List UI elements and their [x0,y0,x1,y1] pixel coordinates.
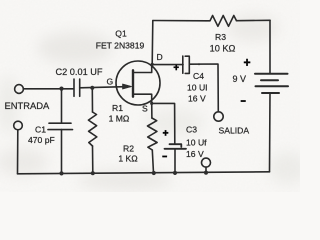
node junction source S [150,102,153,105]
label C4 plus [174,65,179,71]
label C3 plus [163,130,168,136]
svg-text:C4: C4 [193,71,204,81]
wire C1 branch down [61,89,63,123]
battery B1 9V [255,74,288,93]
node junction J2 gate/R1 [90,86,94,90]
svg-text:R1: R1 [112,103,123,113]
wire right rail to battery [269,20,271,73]
svg-text:SALIDA: SALIDA [219,126,250,136]
terminal input lower (ENTRADA) [14,121,23,130]
svg-text:16 V: 16 V [186,149,204,159]
resistor R1 [88,112,96,146]
scan smudges [0,14,308,190]
wire C1 to bottom rail [61,130,63,174]
resistor R2 [148,118,158,150]
wire output lower terminal to rail [205,167,207,172]
wire source junction to R2 [151,103,153,118]
node junction output rail [204,171,208,175]
svg-text:C3: C3 [186,124,197,134]
wire R1 branch down [91,88,93,112]
wire C4 to output corner [189,64,218,112]
svg-text:10 UI: 10 UI [187,83,208,93]
speck [198,63,200,65]
node junction R2 rail [152,171,156,175]
wire gate from C2 to Q1 [80,87,130,88]
wire battery to bottom rail [269,93,272,172]
transistor Q1 channel bar [132,70,134,96]
capacitor C3 [165,144,187,149]
wire input to C2 [23,88,73,90]
svg-text:C2 0.01 UF: C2 0.01 UF [56,67,103,77]
transistor Q1 drain lead [134,64,152,73]
svg-text:ENTRADA: ENTRADA [5,100,51,111]
svg-text:10 Uf: 10 Uf [186,138,207,148]
wire top rail right segment [237,19,271,21]
node junction C1 rail [59,171,63,175]
terminal output lower (SALIDA) [202,158,211,167]
wire input lower terminal down [17,130,19,174]
svg-text:R2: R2 [123,143,134,153]
svg-text:9 V: 9 V [233,74,247,84]
transistor Q1 source lead [134,94,152,103]
transistor Q1 circle [116,61,160,105]
svg-text:G: G [107,77,114,87]
wire R2 to bottom rail [152,150,153,173]
svg-text:1 MΩ: 1 MΩ [109,114,130,124]
svg-text:D: D [157,52,163,62]
svg-text:S: S [142,104,148,114]
wire drain to C4 [152,64,183,66]
svg-text:1 KΩ: 1 KΩ [118,154,138,164]
wire source junction to C3 [152,103,175,143]
node junction drain D [151,63,154,66]
node junction J1 input/C1 [59,87,63,91]
wire top rail left segment [153,20,206,22]
wire drain up to top rail [151,21,154,65]
svg-text:C1: C1 [35,125,46,135]
svg-text:16 V: 16 V [188,94,206,104]
svg-text:FET 2N3819: FET 2N3819 [96,40,145,50]
capacitor C4 [183,56,190,73]
label battery plus [244,59,250,66]
wire R1 to bottom rail [92,146,94,173]
capacitor C1 [48,123,73,129]
label battery minus [241,100,246,102]
wire C3 to bottom rail [174,149,176,173]
capacitor C2 [74,79,80,96]
svg-text:Q1: Q1 [115,29,127,39]
svg-text:470 pF: 470 pF [28,135,55,145]
paper background [0,0,300,192]
terminal output upper (SALIDA) [214,112,223,121]
resistor R3 [206,16,237,27]
node junction R1 rail [91,171,95,175]
node junction C3 rail [173,171,177,175]
svg-text:10 KΩ: 10 KΩ [210,44,236,54]
transistor Q1 gate arrow [123,84,132,89]
svg-text:R3: R3 [215,32,226,42]
label C3 minus [162,156,167,158]
wire bottom rail [18,172,270,174]
terminal input upper (ENTRADA) [15,85,24,94]
